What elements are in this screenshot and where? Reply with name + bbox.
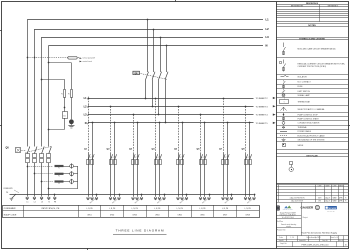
svg-text:L3: L3 [41,201,43,203]
svg-text:Del Plan:: Del Plan: [277,221,284,223]
PE bus [10,194,254,196]
legend row: pump control start [283,117,285,120]
breaker Q4: trip elements [155,160,158,165]
feeder Q8: neutral drop [249,123,251,197]
bus N off-sheet arrow [273,122,276,124]
SPD branch L2: tap [34,173,36,175]
breaker Q4: blades [156,154,162,160]
svg-text:PUMP CONTROL START: PUMP CONTROL START [298,117,320,120]
SPD branch L3: fuse F3 [55,180,64,182]
feeder Q5: neutral drop [182,123,184,197]
breaker Q6: blades [201,154,207,160]
node: tap of main switch pole 2 [153,29,155,31]
breaker Q8: trip elements [245,160,248,165]
feeder Q6: phase drop (dashed) [200,115,202,154]
SPD branch L1: fuse F1 [55,165,64,167]
svg-text:TO SHEET 4: TO SHEET 4 [256,115,269,117]
breaker Q2: trip elements [110,160,113,165]
feeder Q2: outgoing terminals [109,197,112,200]
control circuit destination labels [80,57,82,59]
svg-text:THERMOSTAT: THERMOSTAT [298,100,311,103]
signal lamp H1 [69,119,74,124]
feeder Q3: phase tap on bus [133,114,135,116]
control circuit takeoff (dashed) [27,57,79,59]
legend row: N.O. contact [283,80,285,81]
breaker Q3: trip elements [132,160,135,165]
title block left column [301,202,303,236]
legend row: contactor actuator [282,122,285,125]
svg-text:L2: L2 [266,27,270,31]
SPD branch L1: tap [27,166,29,168]
svg-text:SELECTOR AUTO / 0 / MANUAL: SELECTOR AUTO / 0 / MANUAL [298,108,325,111]
main switch pole 2 [153,29,155,72]
SPD common collector wire [77,166,79,189]
svg-text:L, N, PE: L, N, PE [154,208,161,210]
svg-text:UH03: UH03 [133,214,137,216]
svg-text:POWER CABLE: POWER CABLE [298,130,312,133]
Q0 linkage (dashed) [26,147,52,153]
feeder Q7: neutral tap [227,122,229,124]
feeder Q5: outgoing terminals [177,197,180,200]
breaker Q7: blades [223,154,229,160]
feeder Q8: neutral tap [249,122,251,124]
node: switch pole 3 to bus [158,114,160,116]
feeder Q5: phase tap on bus [178,106,180,108]
breaker Q7: trip elements [222,160,225,165]
partner logo (blue graphic) [284,206,288,208]
breaker Q3: linkage [134,156,139,159]
wire N run (left riser + top run) [48,45,50,146]
voltage monitor: N feed [48,62,50,64]
SPD branch L3: arrester [70,180,74,184]
main switch QS label box [133,71,140,74]
bus L1 [88,98,254,100]
main switch pole 3 [160,37,162,72]
svg-text:Reg. 0476-EN: Reg. 0476-EN [327,211,334,213]
svg-text:RESIDUAL CURRENT CIRCUIT BREAK: RESIDUAL CURRENT CIRCUIT BREAKER WITH OV… [298,62,346,65]
svg-text:F1: F1 [58,168,60,170]
svg-text:Graph. Ver.: Graph. Ver. [280,243,287,245]
round approval stamp [315,205,319,209]
svg-text:UH06: UH06 [200,214,204,216]
svg-text:ELECTRICAL PROTECT CABLE: ELECTRICAL PROTECT CABLE [298,134,326,137]
feeder Q4: outgoing terminals [154,197,157,200]
svg-text:FUSE: FUSE [298,86,304,88]
svg-text:L1: L1 [27,201,29,203]
svg-text:SYMBOLS AND LEGEND: SYMBOLS AND LEGEND [299,37,325,40]
bus L2 [88,106,254,108]
svg-text:CONTACTOR ACTUATOR: CONTACTOR ACTUATOR [298,122,321,125]
svg-text:N: N [266,43,268,47]
Q0 pole 2: blade [34,147,37,154]
breaker Q4: linkage [156,156,161,159]
feeder Q6: neutral tap [204,122,206,124]
feeder Q1: neutral drop [92,123,94,197]
feeder Q1: neutral tap [92,122,94,124]
ground symbol under lamp [68,125,74,128]
feeder Q7: phase drop (dashed) [223,98,225,154]
feeder Q5: PE tap [186,194,188,196]
feeder Q1: PE tap [96,194,98,196]
legend row: power cable [280,131,287,133]
svg-text:UH08: UH08 [245,214,249,216]
svg-text:SIGNAL LAMP: SIGNAL LAMP [298,94,311,97]
breaker Q2: linkage [111,156,116,159]
feeder Q2: PE tap [119,194,121,196]
svg-text:F3: F3 [58,183,60,185]
svg-text:L3: L3 [266,35,270,39]
breaker Q1: blades [88,154,94,160]
feeder Q7: PE tap [231,194,233,196]
node: SPD to N wire [48,188,50,190]
svg-text:Tel +49 5121 700-0: Tel +49 5121 700-0 [282,217,294,219]
title/legend column divider [276,2,278,249]
feeder Q4: neutral drop [159,123,161,197]
SPD branch L3: tap [41,181,43,183]
undervoltage relay U< [63,112,68,119]
svg-text:CONSUMER: CONSUMER [4,208,16,210]
feeder Q8: phase drop (dashed) [245,106,247,153]
bus L3 off-sheet arrow [273,114,276,116]
legend row: electrical protect cable [280,135,287,137]
fuse F5 [64,90,66,98]
node: switch pole 1 to bus [145,98,147,100]
svg-text:N: N [85,122,87,125]
svg-text:UH01: UH01 [87,214,91,216]
svg-text:DWN: DWN [318,198,321,200]
svg-text:NOTES: NOTES [308,25,316,27]
svg-text:MOULDED CASE CIRCUIT BREAKER (: MOULDED CASE CIRCUIT BREAKER (MCB) [298,48,336,51]
main switch pole 1 [147,20,149,72]
breaker Q5: trip elements [177,160,180,165]
feeder Q3: phase drop (dashed) [133,115,135,154]
feeder Q6: neutral drop [204,123,206,197]
Q0 pole 3: blade [42,147,45,154]
bus L1 off-sheet arrow [273,97,276,99]
svg-text:Rev B: Rev B [339,240,343,242]
svg-text:L, N, PE: L, N, PE [177,208,184,210]
control fuse [68,57,77,60]
svg-text:GAUGER: GAUGER [300,206,314,210]
svg-text:PWP-LWR-05-EL-DW-510: PWP-LWR-05-EL-DW-510 [301,244,329,246]
incoming terminal L1 [26,197,29,200]
feeder Q6: phase tap on bus [200,114,202,116]
breaker Q2: blades [111,154,117,160]
breaker Q6: trip elements [200,160,203,165]
feeder Q3: outgoing terminals [132,197,135,200]
feeder Q3: neutral drop [137,123,139,197]
svg-text:GROUNDING OF THE SYSTEM: GROUNDING OF THE SYSTEM [298,140,325,142]
legend row: valve [283,144,286,147]
svg-text:Panel Plan for Domestic Ho: Panel Plan for Domestic Hot Water Supply [301,232,337,235]
Q0 pole 4: outgoing wire [48,163,50,197]
legend row: terminal [282,127,285,129]
breaker Q7: linkage [224,156,229,159]
company logo (dark mark) [276,206,279,211]
node: tap of main switch pole 4 [166,45,168,47]
feeder Q4: phase tap on bus [155,98,157,100]
node: tap of main switch pole 3 [160,37,162,39]
svg-text:F2: F2 [58,175,60,177]
feeder Q2: neutral tap [114,122,116,124]
Q0 pole 4: blade [49,147,52,154]
feeder Q8: phase tap on bus [245,106,247,108]
svg-text:CURRENT PROTECTION (RCBO): CURRENT PROTECTION (RCBO) [298,66,327,68]
svg-text:PUMP CONTROL STOP: PUMP CONTROL STOP [298,114,319,116]
consumer schedule table [3,206,260,218]
revision table [276,4,348,6]
title block bottom rows [276,239,348,241]
feeder Q7: outgoing terminals [222,197,225,200]
drawing title text [276,235,348,237]
svg-text:N.O. CONTACT: N.O. CONTACT [298,81,312,84]
bus L3 [88,114,254,116]
node: switch pole 4 to bus [165,122,167,124]
feeder Q1: phase drop (dashed) [88,98,90,154]
breaker Q1: trip elements [87,160,90,165]
wire L2 run (left riser + top run) [34,29,36,147]
svg-text:UH05: UH05 [178,214,182,216]
svg-text:Scale: Scale [279,237,283,239]
Q0 pole 3: outgoing wire [41,163,43,197]
svg-text:TO SHEET 2: TO SHEET 2 [256,98,269,100]
node on monitor branch [64,107,66,109]
Q0 pole 2: outgoing wire [34,163,36,197]
svg-text:TO SHEET 3: TO SHEET 3 [256,106,269,108]
feeder Q2: neutral drop [114,123,116,197]
Q0 pole 1: trip elements [26,154,30,158]
svg-text:EQUIP CODE: EQUIP CODE [4,214,17,216]
fuse F6 [71,90,73,98]
symbols and legend header [276,37,348,39]
svg-text:BETWEEN B:: BETWEEN B: [328,6,339,8]
Q0 pole 4: trip elements [47,154,51,158]
incoming terminal PE [54,194,56,197]
feeder Q1: phase tap on bus [88,98,90,100]
legend row: isolator [281,76,284,78]
incoming terminal L2 [33,197,36,200]
Q0 motor operator box [16,148,21,153]
breaker Q8: linkage [246,156,251,159]
svg-text:L, N, PE: L, N, PE [245,208,252,210]
feeder Q3: PE tap [141,194,143,196]
svg-text:L, N, PE: L, N, PE [222,208,229,210]
svg-text:L, N, PE: L, N, PE [199,208,206,210]
bus L2 off-sheet arrow [273,105,276,107]
svg-text:UH07: UH07 [223,214,227,216]
SPD branch L2: fuse F2 [55,173,64,175]
svg-text:L, N, PE: L, N, PE [132,208,139,210]
svg-text:L, N, PE: L, N, PE [109,208,116,210]
svg-text:UH04: UH04 [155,214,159,216]
main switch linkage (dashed) [140,73,168,79]
bus N [88,122,254,124]
svg-text:U<: U< [64,114,66,117]
breaker Q5: linkage [179,156,184,159]
legend row: thermostat [280,100,289,104]
svg-text:QS-: QS- [135,73,139,75]
svg-text:REVISION B: REVISION B [306,3,319,5]
svg-text:F6: F6 [68,94,70,96]
title block [276,183,348,185]
feeder Q5: phase drop (dashed) [178,106,180,153]
legend row: grounding of the system [282,138,286,141]
svg-text:THREE LINE DIAGRAM: THREE LINE DIAGRAM [116,228,165,232]
legend row: MCB symbol [283,43,285,48]
wire L3 run (left riser + top run) [41,37,43,147]
svg-text:1 : 50: 1 : 50 [290,237,294,239]
incoming terminal N [47,197,50,200]
wire L1 run (left riser + top run) [27,20,29,147]
svg-text:R: R [345,201,346,203]
svg-text:L1: L1 [266,18,270,22]
svg-text:L, N, PE: L, N, PE [86,208,93,210]
svg-text:PE: PE [6,192,8,194]
breaker Q8: blades [246,154,252,160]
node: relay return to N [48,129,50,131]
feeder Q8: outgoing terminals [244,197,247,200]
svg-text:INPUT: 3PH, N , PE: INPUT: 3PH, N , PE [42,208,60,210]
svg-text:R: R [345,198,346,200]
feeder Q4: PE tap [164,194,166,196]
breaker Q6: linkage [201,156,206,159]
svg-text:KEY PLAN: KEY PLAN [306,154,317,157]
Q0 pole 3: trip elements [40,154,44,158]
voltage monitor: phase feed [41,79,43,81]
legend row: RCBO symbol [283,60,285,64]
svg-text:TUV NORD: TUV NORD [328,208,337,210]
incoming terminal L3 [40,197,43,200]
feeder Q4: phase drop (dashed) [155,98,157,154]
breaker Q5: blades [178,154,184,160]
svg-text:VALVE: VALVE [298,144,304,147]
svg-text:UH02: UH02 [110,214,114,216]
legend row: selector switch [281,107,287,111]
svg-text:F5: F5 [61,94,63,96]
feeder Q5: neutral tap [182,122,184,124]
svg-text:TERMINAL: TERMINAL [298,126,307,129]
breaker Q3: blades [133,154,139,160]
feeder Q6: PE tap [209,194,211,196]
feeder Q7: neutral drop [227,123,229,197]
svg-text:COMBI-SPD: COMBI-SPD [3,188,13,190]
notes header [276,23,348,25]
legend row: pump control stop [283,113,285,116]
feeder Q8: PE tap [254,194,256,196]
svg-text:TO SHEET 5: TO SHEET 5 [256,123,269,125]
feeder Q2: phase tap on bus [110,106,112,108]
feeder Q2: phase drop (dashed) [110,106,112,153]
legend row: signal lamp [282,94,285,97]
svg-text:ISOLATOR: ISOLATOR [298,76,308,79]
Q0 pole 1: blade [27,147,30,154]
earth connection from PE bus [12,194,17,199]
certification logo (blue box) [325,206,337,209]
SPD branch L1: arrester [70,164,74,168]
node: switch pole 2 to bus [152,106,154,108]
svg-text:CHK: CHK [318,201,321,203]
node: tap of main switch pole 1 [147,19,149,21]
SPD branch L2: arrester [70,172,74,176]
breaker Q1: linkage [89,156,94,159]
main switch pole 4 [166,45,168,72]
feeder Q7: phase tap on bus [223,98,225,100]
legend row: fuse [283,85,285,89]
feeder Q6: outgoing terminals [199,197,202,200]
Q0 pole 1: outgoing wire [27,163,29,197]
key plan header [276,153,348,155]
Q0 pole 2: trip elements [33,154,37,158]
key plan location marker [290,162,293,165]
svg-text:Drawn M.K.: Drawn M.K. [299,240,307,242]
feeder Q3: neutral tap [137,122,139,124]
feeder Q4: neutral tap [159,122,161,124]
legend row: limit switch [283,89,285,90]
feeder Q1: outgoing terminals [87,197,90,200]
svg-text:L2: L2 [34,201,36,203]
svg-text:LIMIT SWITCH: LIMIT SWITCH [298,91,311,93]
svg-text:BETWEEN REV: BETWEEN REV [291,6,304,8]
